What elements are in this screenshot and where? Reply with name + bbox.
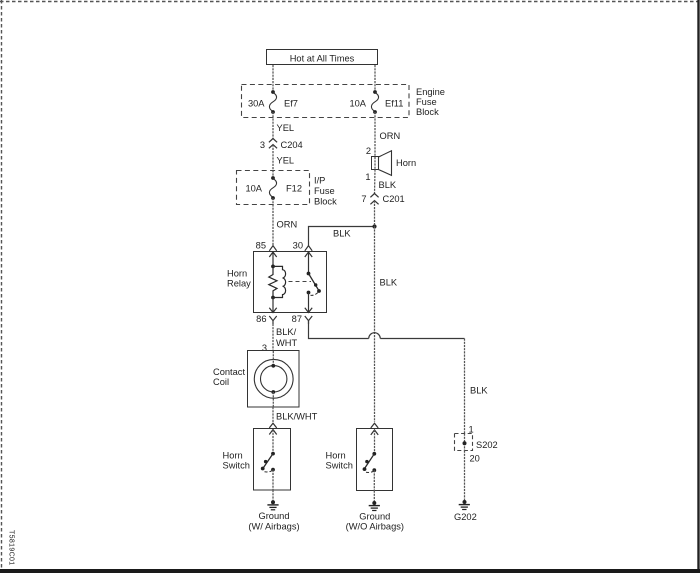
svg-text:BLK: BLK xyxy=(380,278,398,288)
wire: C201 down to horn switch (W/O airbags), BLK xyxy=(375,201,398,422)
svg-text:BLK/WHT: BLK/WHT xyxy=(276,412,318,422)
svg-text:Hot at All Times: Hot at All Times xyxy=(290,54,355,64)
svg-text:Ground: Ground xyxy=(359,511,390,521)
horn relay pin 85 terminal xyxy=(256,241,277,267)
svg-text:BLK/: BLK/ xyxy=(276,327,297,337)
horn B1 (speaker symbol), pins 2 and 1 xyxy=(365,146,416,182)
svg-text:Switch: Switch xyxy=(326,461,353,471)
relay contact switch xyxy=(307,272,321,296)
svg-text:ORN: ORN xyxy=(380,131,401,141)
svg-text:7: 7 xyxy=(361,194,366,204)
svg-text:30: 30 xyxy=(293,241,303,251)
connector C204 pin 3 xyxy=(260,139,303,150)
svg-text:2: 2 xyxy=(366,146,371,156)
svg-text:YEL: YEL xyxy=(277,156,295,166)
wire: F12 to horn relay pin 85, ORN xyxy=(273,198,297,246)
svg-text:C204: C204 xyxy=(281,140,303,150)
svg-text:Ground: Ground xyxy=(258,511,289,521)
splice S202 xyxy=(455,434,498,451)
svg-text:YEL: YEL xyxy=(277,123,295,133)
Horn Switch (W/O Airbags) xyxy=(326,429,393,491)
svg-text:BLK: BLK xyxy=(379,180,397,190)
node: Hot at All Times feed box xyxy=(267,50,378,65)
wire: horn pin1 to C201, BLK xyxy=(375,170,397,194)
svg-text:1: 1 xyxy=(365,172,370,182)
wire: horn switch 1 to ground xyxy=(272,490,274,502)
svg-text:(W/O Airbags): (W/O Airbags) xyxy=(346,522,404,532)
svg-text:T5819C01: T5819C01 xyxy=(8,530,15,566)
svg-text:Contact: Contact xyxy=(213,367,245,377)
svg-text:Fuse: Fuse xyxy=(416,97,437,107)
svg-text:Engine: Engine xyxy=(416,87,445,97)
svg-text:Relay: Relay xyxy=(227,278,251,288)
wire: relay 87 right to ground splice, BLK (hops horn column) xyxy=(309,321,489,434)
wire: horn switch 2 to ground xyxy=(373,491,375,504)
svg-text:WHT: WHT xyxy=(276,338,297,348)
svg-text:85: 85 xyxy=(256,241,266,251)
svg-text:ORN: ORN xyxy=(277,220,298,230)
dashed actuation link coil-to-contacts xyxy=(289,281,312,283)
svg-text:87: 87 xyxy=(292,314,302,324)
svg-text:3: 3 xyxy=(260,140,265,150)
svg-text:30A: 30A xyxy=(248,99,265,109)
connector C201 pin 7 xyxy=(361,194,404,205)
svg-text:3: 3 xyxy=(262,343,267,353)
svg-text:Block: Block xyxy=(314,197,337,207)
svg-text:Fuse: Fuse xyxy=(314,186,335,196)
horn switch 1 entry terminal xyxy=(269,423,276,453)
I/P Fuse Block (dashed enclosure) xyxy=(237,171,338,207)
svg-text:Switch: Switch xyxy=(223,461,250,471)
wire: contact coil to horn switch, BLK/WHT xyxy=(273,407,318,423)
svg-text:S202: S202 xyxy=(476,440,498,450)
svg-text:Horn: Horn xyxy=(396,158,416,168)
wire: relay 30 up and over to horn column, BLK xyxy=(309,227,375,246)
wire: C204 to F12, YEL xyxy=(273,145,294,178)
svg-text:Coil: Coil xyxy=(213,377,229,387)
svg-text:10A: 10A xyxy=(349,99,366,109)
ground symbol (W/ Airbags) xyxy=(248,500,299,531)
svg-text:Ef11: Ef11 xyxy=(385,99,403,109)
ground symbol (W/O Airbags) xyxy=(346,501,404,532)
junction at horn column xyxy=(372,224,376,228)
horn relay pin 87 terminal xyxy=(292,293,313,325)
relay coil (resistor + winding) xyxy=(269,265,286,300)
wire: Ef11 to horn, ORN xyxy=(375,112,400,157)
ground G202 xyxy=(454,500,477,522)
svg-text:Block: Block xyxy=(416,107,439,117)
Horn Relay box U1 xyxy=(227,252,327,313)
fuse Ef7 30A xyxy=(248,90,298,114)
wire label: BLK/WHT from relay 86 xyxy=(273,321,297,351)
fuse F12 10A xyxy=(245,176,302,200)
svg-text:C201: C201 xyxy=(383,194,405,204)
svg-text:F12: F12 xyxy=(286,184,302,194)
Horn Switch (W/ Airbags) xyxy=(223,429,291,491)
svg-text:BLK: BLK xyxy=(333,229,351,239)
horn switch 2 entry terminal xyxy=(371,423,378,454)
svg-text:20: 20 xyxy=(470,454,480,464)
svg-text:(W/ Airbags): (W/ Airbags) xyxy=(248,522,299,532)
Engine Fuse Block (dashed enclosure) xyxy=(242,85,445,118)
wire: hot feed to Ef7 xyxy=(272,65,274,92)
svg-text:BLK: BLK xyxy=(470,386,488,396)
svg-text:G202: G202 xyxy=(454,512,477,522)
fuse Ef11 10A xyxy=(349,90,403,114)
horn relay pin 86 terminal xyxy=(256,298,277,325)
svg-text:I/P: I/P xyxy=(314,176,325,186)
wire: hot feed to Ef11 xyxy=(374,65,376,92)
Contact Coil (clockspring) xyxy=(213,351,299,408)
wire: S202 to G202 xyxy=(464,451,466,503)
horn relay pin 30 terminal xyxy=(293,241,313,274)
svg-text:86: 86 xyxy=(256,314,266,324)
svg-text:10A: 10A xyxy=(245,184,262,194)
svg-text:Horn: Horn xyxy=(223,451,243,461)
svg-text:Ef7: Ef7 xyxy=(284,99,298,109)
svg-text:Horn: Horn xyxy=(227,268,247,278)
svg-text:Horn: Horn xyxy=(326,451,346,461)
wire: Ef7 to C204, YEL xyxy=(273,112,294,139)
